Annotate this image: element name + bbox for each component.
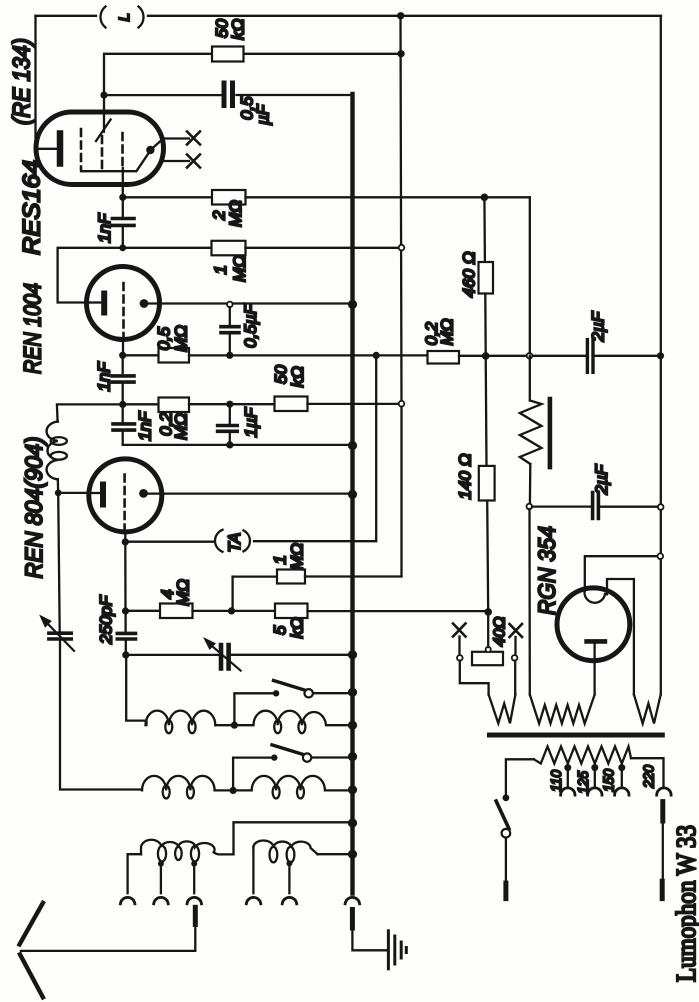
wire 1uF leads <box>229 404 231 445</box>
node 1M riser <box>228 607 235 614</box>
wire REN1004 grid loop left-up <box>58 248 123 303</box>
tube RES164 grid1 dashes <box>80 129 83 169</box>
wire 2M corner down <box>529 197 531 353</box>
inductor grid coil (vertical) <box>47 422 58 480</box>
tube RES164 grid3 dashes <box>121 133 124 166</box>
wire tap 110 <box>567 768 569 788</box>
socket hook 1 <box>120 897 134 903</box>
node speaker bottom circle <box>527 504 533 510</box>
socket hook 2 <box>154 897 169 903</box>
wire coil to grid node <box>57 479 60 493</box>
node 0.5uF top circle <box>227 302 233 308</box>
speaker zigzag <box>520 401 542 465</box>
winding rect filament (left) <box>489 695 516 724</box>
switch1 lever <box>274 681 307 691</box>
node cathode REN804 <box>122 538 129 545</box>
wire ant tap1 down <box>160 864 162 894</box>
tube RES164 anode plate diagonal <box>96 120 111 142</box>
potentiometer 40 ohm box <box>472 652 503 665</box>
wire 140 bottom lead <box>487 501 488 612</box>
wire 2M line left <box>123 196 212 198</box>
wire rail from top line down to 1M0 corner <box>401 16 402 577</box>
wire 1M right to rail corner <box>305 575 402 577</box>
wire 0.5uF branch top <box>229 307 231 325</box>
winding output filament (right) <box>634 695 661 724</box>
svg-text:2µF: 2µF <box>592 463 611 495</box>
antenna symbol lower stroke <box>20 954 43 997</box>
svg-text:MΩ: MΩ <box>230 255 249 282</box>
tube RES164 internal node dot <box>146 146 154 154</box>
tube REN1004 grid bar <box>101 294 107 313</box>
wire RES164 grid lead down <box>122 168 124 217</box>
node 1uF top <box>226 401 233 408</box>
node y445-bus <box>348 441 357 450</box>
mains plug pin right <box>660 881 665 898</box>
tube RES164 pin lead lower <box>163 160 189 162</box>
tube REN1004 envelope <box>87 267 160 340</box>
tube RGN354 anode stem <box>593 644 595 695</box>
wire node404 to left column <box>57 404 123 421</box>
wire 2M line right to corner <box>246 196 530 198</box>
wire 220 lead <box>631 758 664 788</box>
tube REN1004 grid stub <box>89 301 101 303</box>
wire ant tap2 down <box>193 864 195 894</box>
wire RGN354 filament right lead <box>607 579 634 695</box>
socket tap 220 <box>657 788 671 795</box>
tube RES164 pin lead upper <box>150 139 189 151</box>
svg-text:kΩ: kΩ <box>229 19 248 41</box>
node switch2 contact <box>271 754 277 760</box>
wire 1M line left <box>123 247 212 249</box>
wire left column to trimmer <box>58 493 60 632</box>
wire 50k line left segment with corner down to anode node <box>104 54 212 95</box>
wire wiper to node <box>487 612 489 647</box>
wire 4M line left <box>126 610 161 612</box>
node coil1b bus <box>348 721 357 730</box>
node ant right bus <box>348 850 357 859</box>
wire top line right of L jack to right corner <box>148 15 661 17</box>
wire switch2 branch <box>233 758 274 791</box>
node cathode REN1004 <box>119 352 126 359</box>
node tap 110 <box>564 764 571 771</box>
inductor antenna coil left <box>141 840 234 855</box>
resistor 0.5M <box>159 348 190 363</box>
wire 5k to 40 ohm node <box>308 610 489 612</box>
node tap 150 <box>618 764 625 771</box>
svg-text:kΩ: kΩ <box>288 617 307 639</box>
jack L right arc <box>139 7 144 28</box>
node REN804 anode-bus <box>348 490 357 499</box>
svg-text:MΩ: MΩ <box>438 318 457 345</box>
wire REN1004 cathode lead down <box>122 340 124 356</box>
wire coil1a to junction <box>215 724 234 726</box>
node y404 <box>119 401 126 408</box>
pin mark X upper <box>187 132 200 145</box>
node small circle on rail <box>399 245 405 251</box>
tube RGN354 anode bar <box>587 639 605 644</box>
node 460/140 junction <box>482 352 490 360</box>
socket hook 3 <box>187 897 202 903</box>
socket hook 4 <box>246 897 260 903</box>
wire switch2 to bus <box>311 756 350 758</box>
wire 0.5uF branch bottom <box>229 335 231 356</box>
capacitor 0.5uF (REN1004) plates <box>221 327 239 333</box>
wire top line left of L jack <box>36 15 97 17</box>
tube REN1004 anode dot <box>140 299 149 308</box>
socket hook 6 (bus/ground) <box>345 897 360 903</box>
wire X right to terminal <box>514 637 516 655</box>
antenna plug pin <box>193 907 198 924</box>
wire coil2a to junction <box>215 789 234 791</box>
capacitor 1nF (REN1004 cath-grid) plates <box>112 376 134 382</box>
tube RES164 anode lead <box>103 95 105 132</box>
svg-text:1nF: 1nF <box>95 361 114 392</box>
svg-text:40Ω: 40Ω <box>492 617 509 647</box>
transformer core bar <box>490 733 663 738</box>
svg-text:REN 1004: REN 1004 <box>20 283 47 374</box>
resistor 460 <box>479 262 494 294</box>
svg-text:MΩ: MΩ <box>172 325 191 352</box>
node 140/5k/40ohm <box>484 608 492 616</box>
jack L left arc <box>100 7 105 28</box>
svg-text:250pF: 250pF <box>97 594 116 645</box>
mains switch lever <box>496 801 509 829</box>
wire 2uF to right rail <box>595 355 659 357</box>
wire RGN354 filament left lead <box>585 556 658 591</box>
inductor RF coil 1a <box>146 711 216 726</box>
node switch1 contact <box>273 690 279 696</box>
socket hook 5 <box>282 897 297 903</box>
node 460 top <box>481 194 489 202</box>
tube REN804 grid stub <box>90 492 100 494</box>
wire cap leads <box>122 355 124 404</box>
svg-text:1nF: 1nF <box>136 410 155 441</box>
node mains switch contact <box>503 794 510 801</box>
resistor 1M (grid leak REN1004->RES164) <box>212 241 246 256</box>
svg-text:2µF: 2µF <box>589 310 608 342</box>
mains plug pin left <box>503 883 508 899</box>
svg-text:MΩ: MΩ <box>226 200 245 227</box>
resistor 0.2M (to 460) <box>428 351 460 364</box>
pot left terminal circle <box>457 655 463 661</box>
primary tap stubs <box>568 764 622 768</box>
wire third 1nF leads <box>122 404 124 445</box>
tube REN804 grid bar <box>100 485 106 505</box>
wire cathode to TA <box>125 541 214 543</box>
winding HV (middle) <box>530 695 595 724</box>
wire ant right tap down <box>288 863 290 893</box>
svg-text:220: 220 <box>641 764 658 789</box>
resistor 5k <box>275 604 308 619</box>
socket tap 110 <box>561 788 575 795</box>
tube REN804 anode dot <box>139 489 148 498</box>
wire y445 line to bus <box>123 444 351 446</box>
wire switch1 to bus <box>313 692 351 694</box>
node 2uF right rail <box>657 352 664 359</box>
node switch1 bus <box>348 688 357 697</box>
node grid-coil <box>55 490 62 497</box>
pin mark X pot right <box>510 624 523 637</box>
wire antenna plug down-left <box>21 925 195 951</box>
wire speaker bottom <box>529 464 532 504</box>
svg-text:TA: TA <box>226 533 244 553</box>
svg-text:MΩ: MΩ <box>174 579 193 606</box>
switch2 hinge circle <box>303 753 311 761</box>
wire 1M line <box>233 575 277 577</box>
node coils2 junction <box>230 787 237 794</box>
node anode-bus <box>348 300 357 309</box>
svg-text:RES164: RES164 <box>19 160 46 255</box>
wire 460 bottom lead <box>484 294 487 356</box>
wire 0.5M line to 0.2M box <box>189 354 428 356</box>
node grid RES164 <box>119 194 126 201</box>
variable capacitor arrow <box>212 646 241 671</box>
svg-text:kΩ: kΩ <box>288 366 307 388</box>
wire REN804 anode to bus <box>148 492 351 494</box>
wire anode node to 0.5uF cap <box>104 94 221 96</box>
svg-text:REN 804(904): REN 804(904) <box>21 437 48 579</box>
variable capacitor plates <box>221 645 229 669</box>
primary winding zigzag <box>534 747 631 764</box>
tube REN1004 dashed electrode <box>122 283 125 343</box>
ground plug pin <box>350 910 355 929</box>
resistor 2M <box>212 190 246 205</box>
svg-text:MΩ: MΩ <box>172 413 191 440</box>
wire 1M line right to rail <box>246 247 400 249</box>
node coils1 junction <box>231 722 238 729</box>
node antenna line bus <box>348 818 357 827</box>
wire 250pF branch <box>124 611 127 655</box>
svg-text:1µF: 1µF <box>242 406 261 437</box>
ground bar 2 <box>393 936 396 964</box>
node var cap bus <box>348 650 357 659</box>
svg-text:110: 110 <box>548 769 565 792</box>
wire 4M-5k mid <box>193 610 276 612</box>
wire TA to riser <box>254 355 376 541</box>
node 250pF bottom <box>122 651 129 658</box>
speaker bar <box>548 399 553 467</box>
pin mark X lower <box>187 155 200 168</box>
node circle on rail (50k) <box>399 401 405 407</box>
svg-text:1nF: 1nF <box>95 212 114 243</box>
resistor 4M <box>160 604 193 619</box>
wire ant coil right left-lead down <box>252 847 254 893</box>
wire var cap line right to bus <box>231 654 351 656</box>
node speaker top circle <box>527 353 533 359</box>
switch1 hinge circle <box>305 689 313 697</box>
tube REN804 envelope <box>89 459 162 532</box>
wire to 50k mid <box>189 403 275 405</box>
svg-text:RGN 354: RGN 354 <box>534 526 561 615</box>
svg-text:460 Ω: 460 Ω <box>460 251 479 297</box>
wire 0.2M line left <box>123 403 159 405</box>
node ant right tap <box>286 860 292 866</box>
trimmer arrow <box>48 624 75 651</box>
wire 1nF to node <box>122 227 124 248</box>
node ant tap2 <box>191 861 197 867</box>
node 1uF bottom <box>226 441 233 448</box>
svg-text:150: 150 <box>601 768 618 792</box>
tube RES164 grid2 dashes <box>101 136 104 170</box>
capacitor 2uF upper plates <box>587 340 593 373</box>
wire 2uF lower right <box>600 506 658 508</box>
pot wiper circle <box>486 647 491 652</box>
wire ground pin to ground <box>352 928 386 950</box>
inductor RF coil 2b <box>233 776 350 791</box>
wire 140 top lead <box>485 356 488 466</box>
wire right rail down to transformer winding <box>660 16 662 695</box>
node 250pF/4M <box>122 607 129 614</box>
switch2 lever <box>272 745 305 755</box>
node 0.5uF bottom <box>226 352 233 359</box>
wire 0.5M line left <box>123 354 159 356</box>
wire pot right to winding <box>514 661 516 695</box>
wire tap 150 <box>621 768 623 788</box>
antenna symbol upper stroke <box>20 903 43 945</box>
capacitor 0.5uF plates <box>224 83 233 106</box>
wire coil1a left lead <box>126 655 146 725</box>
wire cathode down to 250pF node <box>124 542 126 611</box>
wire pot left to winding <box>460 661 489 695</box>
svg-text:(RE 134): (RE 134) <box>9 38 36 125</box>
resistor 0.2M (REN1004) <box>159 398 190 413</box>
wire switch1 branch <box>234 693 276 725</box>
inductor antenna coil right <box>253 840 317 854</box>
wire switch to plug pin <box>505 838 507 884</box>
node rail-top <box>397 12 404 19</box>
wire REN804 cathode lead <box>124 532 126 542</box>
resistor 140 <box>479 466 495 501</box>
node rail-50k <box>397 50 404 57</box>
wire left edge down from top line <box>34 16 36 149</box>
tube RGN354 filament arc <box>584 591 605 603</box>
wire ant coil left end down <box>128 854 141 893</box>
capacitor 1uF plates <box>218 426 238 432</box>
wire REN1004 anode to bus <box>148 302 351 304</box>
pin mark X pot left <box>453 624 466 637</box>
node coupling <box>119 244 126 251</box>
ground tick <box>405 948 408 953</box>
wire var cap line left <box>126 654 221 656</box>
trimmer plates <box>49 633 71 639</box>
wire 1M riser vertical <box>231 577 233 611</box>
resistor 50k (top) <box>212 47 244 62</box>
wire 0.2M to 2uF <box>459 355 586 357</box>
wire 220 pin down <box>662 821 664 881</box>
capacitor 2uF lower plates <box>593 493 599 519</box>
mains switch hinge circle <box>502 829 511 838</box>
wire 50k line right segment to rail <box>244 53 402 55</box>
wire 50k to rail circle <box>308 403 400 405</box>
ground bar 3 <box>400 942 403 958</box>
jack TA left arc <box>215 530 223 552</box>
wire REN804 grid lead <box>58 492 90 494</box>
tube REN804 dashed electrode <box>123 475 126 533</box>
wire RES164 cathode lead <box>36 148 58 150</box>
svg-text:0,5µF: 0,5µF <box>241 303 260 348</box>
node switch2 bus <box>348 752 357 761</box>
svg-text:125: 125 <box>575 770 592 794</box>
wire 0.5uF cap to main bus corner <box>237 94 353 96</box>
ground bar 1 <box>387 931 390 969</box>
wire primary left lead <box>506 759 534 795</box>
node RES164 anode <box>100 92 107 99</box>
wire 460 top lead <box>483 197 486 262</box>
node ant tap1 <box>158 861 164 867</box>
node tap 125 <box>591 764 598 771</box>
jack TA right arc <box>244 530 250 551</box>
capacitor 1nF (third) plates <box>113 424 135 430</box>
capacitor 1nF (RES164 grid) plates <box>112 219 134 226</box>
inductor RF coil 1b <box>234 711 350 726</box>
inductor RF coil 2a <box>142 776 215 791</box>
resistor 50k (mid) <box>275 397 308 412</box>
socket tap 150 <box>615 788 629 795</box>
svg-text:Lumophon W 33: Lumophon W 33 <box>671 825 699 982</box>
wire speaker node down to HV winding <box>528 509 531 695</box>
inductor grid coil loops <box>51 437 67 445</box>
svg-text:1: 1 <box>211 265 230 274</box>
capacitor 250pF plates <box>117 633 135 639</box>
wire 2uF lower line left <box>532 505 591 507</box>
tube RES164 cathode bar <box>57 134 64 164</box>
socket tap 125 <box>588 788 602 795</box>
tube RES164 internal bottom rail <box>81 151 150 172</box>
wire antenna line to bus <box>234 822 351 854</box>
wire tap 125 <box>594 768 596 788</box>
node 2uF lower right circle <box>658 504 664 510</box>
plug pin in 220 socket <box>660 802 665 821</box>
pot right terminal circle <box>512 655 518 661</box>
node coil2b bus <box>348 785 357 794</box>
svg-text:MΩ: MΩ <box>288 543 307 570</box>
svg-text:140 Ω: 140 Ω <box>456 453 475 499</box>
node filament-rail circle <box>658 553 664 559</box>
resistor 1M (det) <box>277 570 305 584</box>
tube RES164 envelope <box>36 112 164 185</box>
wire speaker top <box>529 356 531 401</box>
node TA riser <box>373 352 380 359</box>
wire main bus (thick) <box>350 94 354 894</box>
svg-text:L: L <box>116 13 133 21</box>
svg-text:µF: µF <box>254 103 273 126</box>
wire X left to terminal <box>458 637 460 656</box>
wire trimmer down to band coil 2 <box>60 641 142 790</box>
tube RGN354 envelope <box>557 588 630 661</box>
wire ant coil right end to bus <box>318 853 351 855</box>
